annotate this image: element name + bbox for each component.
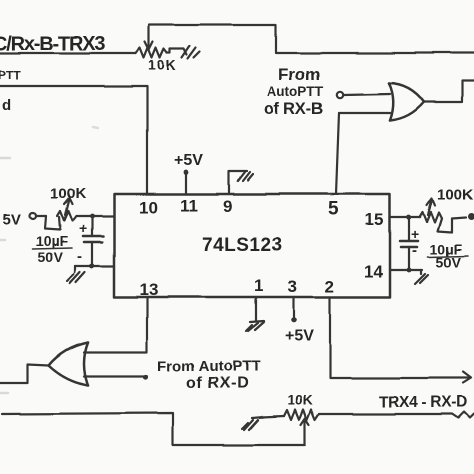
svg-text:From AutoPTT: From AutoPTT [157,358,261,375]
wire pin 5 [336,113,339,194]
svg-text:10K: 10K [287,392,313,408]
svg-text:50V: 50V [436,254,462,270]
svg-text:10: 10 [139,198,158,217]
wire [76,215,114,217]
or-gate G2 [49,342,88,385]
wire bottom [2,413,305,445]
svg-text:AutoPTT: AutoPTT [267,84,324,99]
node From AutoPTT of RX-B label [264,65,324,118]
svg-text:+: + [411,226,419,242]
svg-text:From: From [278,65,321,84]
ground [67,266,85,283]
wire G2 output [0,364,49,383]
svg-text:1: 1 [254,276,263,295]
svg-text:9: 9 [223,197,232,216]
wire [149,25,474,53]
terminal dot [468,213,474,220]
svg-text:13: 13 [139,280,158,299]
wire [344,94,390,95]
wire pin 3 [293,297,295,318]
svg-text:of RX-B: of RX-B [264,100,323,118]
svg-text:74LS123: 74LS123 [202,235,283,256]
capacitor C1 10uF/50V [33,216,103,266]
wire [36,215,46,217]
svg-text:100K: 100K [437,186,473,203]
svg-text:of RX-D: of RX-D [186,375,249,392]
node dot [291,317,297,323]
svg-text:TRX4 - RX-D: TRX4 - RX-D [379,394,467,411]
or-gate G1 [389,83,424,121]
node dot [90,264,95,269]
svg-text:3: 3 [288,277,297,296]
faint scan streaks [0,127,98,393]
terminal circle [337,92,343,98]
wire pin 15 [390,216,420,218]
arrowhead [463,372,471,383]
svg-text:100K: 100K [50,185,86,202]
ground pin 1 [246,297,264,331]
svg-text:+5V: +5V [174,152,203,169]
node dot [143,374,148,379]
svg-text:2: 2 [325,277,334,296]
svg-text:d: d [2,97,11,114]
wire [0,86,147,194]
ground [242,417,264,430]
potentiometer R4 10K [262,392,319,428]
svg-text:PTT: PTT [0,68,21,82]
svg-text:5V: 5V [3,211,21,228]
svg-text:14: 14 [364,262,383,281]
wire [319,412,474,418]
svg-text:11: 11 [180,196,198,215]
ground [415,270,428,284]
svg-text:C/Rx-B-TRX3: C/Rx-B-TRX3 [0,33,105,55]
wire [0,52,136,54]
node dot [407,215,412,220]
svg-text:10K: 10K [148,57,177,73]
svg-text:10µF: 10µF [36,233,69,249]
node dot [407,268,412,273]
wire pin 11 [185,173,187,194]
svg-text:5: 5 [328,199,339,220]
node From AutoPTT of RX-D label [157,358,261,392]
svg-text:+: + [79,220,87,236]
wire [84,375,144,377]
node dot [184,170,189,175]
wire pin 13 [84,297,147,352]
wire [339,112,390,114]
svg-text:-: - [412,242,417,259]
IC U1 74LS123 [114,194,390,297]
svg-text:15: 15 [365,210,384,229]
svg-text:+5V: +5V [285,328,314,345]
resistor R1 10K [136,27,200,73]
potentiometer R2 100K [420,186,473,232]
svg-text:-: - [77,248,82,265]
wire [75,265,114,267]
wire pin 2 [330,297,468,378]
wire pin 14 [390,269,422,271]
wire [424,81,474,102]
svg-text:50V: 50V [38,249,64,265]
node dot [90,214,95,219]
capacitor C2 10uF/50V [400,217,468,270]
potentiometer R3 100K [45,185,86,230]
ground pin 9 [229,171,253,194]
terminal circle [30,213,36,219]
